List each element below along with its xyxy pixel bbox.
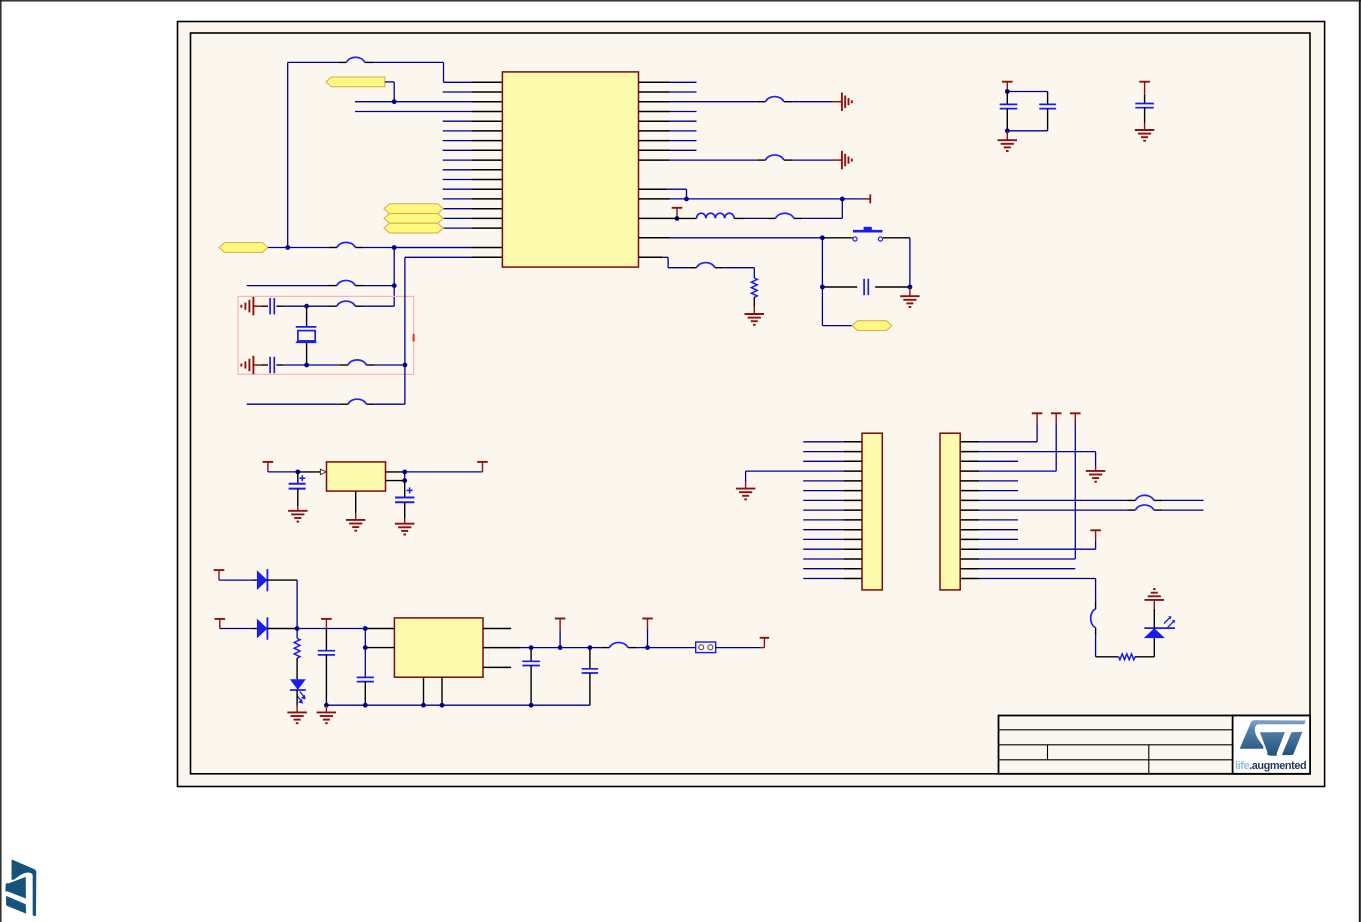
wire to switch	[822, 237, 852, 239]
wire to ground	[745, 471, 747, 482]
ferrite bead FB9	[767, 213, 802, 218]
wire top to pin1	[288, 62, 444, 82]
junction	[908, 285, 913, 290]
ferrite bead FB4	[329, 301, 364, 306]
ground G9	[395, 518, 415, 535]
junction	[295, 626, 300, 631]
ground G2	[832, 151, 851, 170]
junction	[403, 363, 408, 368]
J2 pin 1	[803, 441, 862, 443]
J2 pin 8	[803, 509, 862, 511]
ground G7	[288, 506, 308, 522]
diode D1	[257, 569, 268, 591]
wire output	[405, 471, 483, 473]
net flag F1	[326, 77, 385, 87]
wire	[268, 471, 298, 473]
wire	[220, 628, 257, 630]
junction	[820, 235, 825, 240]
junction	[392, 283, 397, 288]
wire to led	[1095, 579, 1097, 602]
connector J2	[862, 433, 882, 590]
wire from switch	[883, 238, 910, 287]
ground G5	[998, 131, 1018, 151]
ferrite bead FB8	[757, 155, 792, 160]
ferrite bead FB7	[757, 97, 792, 102]
ferrite bead FB5	[340, 360, 375, 365]
reg left pin2	[365, 647, 394, 649]
J2 pin 3	[803, 460, 862, 462]
pin right gnd1	[639, 101, 670, 103]
wire rail in	[297, 628, 394, 630]
J3 pin 8	[960, 509, 1203, 511]
junction	[285, 245, 290, 250]
J2 pin 15	[803, 578, 862, 580]
bottom rail	[326, 704, 590, 706]
pin left 14	[443, 208, 502, 210]
wire out	[531, 647, 560, 649]
J3 pin 15	[960, 578, 1095, 580]
wire cap bridge top	[1007, 92, 1047, 105]
microcontroller U1	[502, 72, 638, 267]
capacitor C14	[582, 648, 599, 706]
junction	[392, 245, 397, 250]
capacitor C13	[522, 648, 540, 706]
junction	[840, 197, 845, 202]
J2 pin 12	[803, 548, 862, 550]
reg bottom pins	[424, 677, 443, 705]
led D4	[1144, 616, 1176, 638]
junction	[1005, 128, 1010, 133]
resistor R1	[751, 278, 757, 297]
reg right stub3	[483, 666, 511, 668]
pin right k12	[639, 198, 863, 200]
ground G14 inverted	[1145, 589, 1165, 628]
wire to ground	[670, 159, 833, 161]
junction	[363, 626, 368, 631]
J3 pin 7	[960, 499, 1203, 501]
J3 pin 6	[960, 490, 1018, 492]
wire to ground	[670, 101, 833, 103]
pin left 18	[394, 247, 502, 249]
capacitor C6	[1000, 92, 1018, 109]
junction	[304, 363, 309, 368]
capacitor C11	[318, 629, 335, 706]
ground G1	[832, 93, 851, 112]
junction	[440, 703, 445, 708]
capacitor C10 polarized	[395, 481, 414, 518]
net flag F5	[384, 214, 443, 224]
power tap T7	[215, 619, 226, 629]
pin right 1	[639, 91, 697, 93]
junction	[675, 216, 680, 221]
wire VDD vertical left	[287, 62, 289, 247]
ground G10	[287, 690, 307, 723]
wire	[1055, 423, 1057, 472]
J3 pin 2	[960, 451, 1095, 453]
inner frame	[191, 33, 1311, 774]
J3 pin 14	[960, 568, 1075, 570]
ground G13	[1086, 467, 1106, 482]
pin left 12	[443, 188, 503, 190]
ground G12	[736, 482, 756, 499]
power tap T	[672, 208, 683, 219]
power tap T6	[214, 570, 225, 580]
pin left 7	[443, 140, 503, 142]
wire flag F1 to pin3	[385, 82, 394, 102]
wire row B	[247, 285, 394, 287]
reg ground pin	[355, 491, 357, 513]
power tap T10	[642, 619, 653, 648]
power tap T8	[321, 619, 332, 629]
junction	[645, 645, 650, 650]
diode D2	[257, 617, 268, 639]
junction	[363, 703, 368, 708]
pin left 4	[355, 111, 502, 113]
junction	[324, 703, 329, 708]
ferrite bead FB1	[338, 57, 373, 62]
J2 pin 14	[803, 568, 862, 570]
J3 pin 13	[960, 558, 1075, 560]
net flag F4	[384, 204, 443, 214]
pin left 10	[443, 169, 503, 171]
pin right k14	[639, 217, 678, 219]
J2 pin 7	[803, 499, 862, 501]
sheet background	[178, 22, 1325, 787]
J3 pin 9	[960, 519, 1018, 521]
wire	[1135, 638, 1154, 657]
J3 pin 5	[960, 480, 1018, 482]
pin left 15	[443, 217, 502, 219]
wire	[590, 647, 648, 649]
regulator U3	[394, 618, 483, 677]
J3 pin 4	[960, 470, 1056, 472]
ground G8	[346, 513, 366, 531]
capacitor C4	[262, 357, 284, 373]
capacitor C7	[1039, 104, 1056, 108]
wire row C	[283, 305, 394, 307]
power tap T13	[1051, 413, 1062, 422]
power tap T3	[1139, 82, 1150, 95]
terminator T11	[760, 638, 769, 648]
power tap T2	[1002, 82, 1013, 92]
J2 pin 5	[803, 480, 862, 482]
junction	[529, 645, 534, 650]
power tap T12	[1032, 413, 1043, 422]
ground crystal bottom	[241, 356, 261, 374]
wire	[668, 268, 754, 278]
ferrite bead FB11	[601, 642, 636, 647]
J2 pin 11	[803, 538, 862, 540]
pin left 11	[443, 179, 503, 181]
pushbutton SW1	[853, 227, 883, 241]
pin left 8	[443, 149, 503, 151]
J2 pin 9	[803, 519, 862, 521]
junction	[402, 470, 407, 475]
pin right k11	[639, 189, 687, 199]
wire	[1074, 423, 1076, 560]
ferrite bead FB13	[1127, 505, 1162, 510]
junction	[392, 99, 397, 104]
crystal Y1	[296, 306, 317, 365]
wire cap bridge bottom	[1007, 109, 1047, 131]
pin right 3	[639, 111, 697, 113]
ground G6	[1135, 123, 1155, 141]
J2 pin 4	[746, 470, 862, 472]
pin left 9	[443, 159, 503, 161]
wire	[267, 628, 297, 630]
logo ST corner	[6, 859, 37, 916]
connector J3	[940, 433, 960, 590]
J3 pin 11	[960, 538, 1018, 540]
wire	[1095, 541, 1097, 549]
J3 pin 1	[960, 441, 1037, 443]
resistor R3	[1119, 654, 1135, 660]
resistor R2	[294, 629, 300, 680]
junction	[558, 645, 563, 650]
pin left 19	[405, 256, 502, 258]
wire	[744, 199, 842, 219]
junction	[529, 703, 534, 708]
pin left 3	[355, 101, 502, 103]
ground G3	[900, 287, 920, 307]
wire	[1096, 635, 1119, 657]
junction	[421, 703, 426, 708]
ground G4	[745, 297, 765, 325]
logo text life.augmented	[1235, 760, 1306, 772]
J2 pin 6	[803, 490, 862, 492]
regulator U2	[327, 462, 386, 491]
junction	[684, 197, 689, 202]
highlight box crystal	[238, 296, 415, 374]
terminator red	[863, 194, 871, 203]
wire row D	[283, 364, 405, 366]
net flag F3 RESET	[852, 321, 892, 331]
ferrite bead FB2	[329, 242, 364, 247]
junction	[363, 645, 368, 650]
pin left 2	[443, 91, 503, 93]
wire osc vertical V1	[393, 248, 395, 307]
J2 pin 13	[803, 558, 862, 560]
pin left 16	[443, 227, 502, 229]
junction	[304, 304, 309, 309]
J2 pin 2	[803, 451, 862, 453]
capacitor C12	[357, 629, 374, 706]
junction	[402, 478, 407, 483]
power tap T15	[1090, 530, 1101, 541]
ferrite bead FB12	[1127, 495, 1162, 500]
reg output pins	[386, 472, 405, 481]
wire	[267, 580, 297, 628]
pin left 5	[443, 120, 503, 122]
net flag F6	[384, 223, 443, 233]
pin right k16	[639, 237, 823, 239]
title block	[999, 716, 1311, 774]
wire	[219, 579, 257, 581]
pin right 4	[639, 120, 697, 122]
pin right k18	[639, 257, 669, 267]
wire	[560, 647, 590, 649]
junction	[588, 645, 593, 650]
led D3	[290, 679, 306, 703]
pin right 7	[639, 149, 697, 151]
wire to reg input	[298, 469, 327, 474]
inductor L1	[677, 213, 744, 218]
pin right 6	[639, 140, 697, 142]
wire	[1095, 452, 1097, 467]
pin left 6	[443, 130, 503, 132]
wire osc vertical V2	[404, 257, 406, 404]
capacitor C9 polarized	[289, 472, 306, 506]
net flag F2 VDD	[219, 243, 268, 253]
wire to jumper	[648, 647, 696, 649]
power tap T14	[1070, 413, 1081, 422]
pin left 1	[444, 81, 503, 83]
capacitor C8	[1135, 95, 1154, 123]
wire from jumper	[716, 647, 760, 649]
ferrite bead FB3	[329, 280, 364, 285]
J3 pin 12	[960, 548, 1095, 550]
hop arc	[1091, 601, 1096, 635]
ferrite bead FB6	[340, 399, 375, 404]
wire	[1036, 423, 1038, 442]
wire row E	[247, 403, 405, 405]
reg out pin2	[483, 647, 531, 649]
power tap T4	[263, 462, 274, 472]
pin right gnd2	[639, 159, 670, 161]
power tap T5	[477, 462, 488, 472]
reg right stub1	[483, 628, 511, 630]
capacitor C5	[864, 279, 868, 295]
J3 pin 3	[960, 460, 1018, 462]
jumper J1	[696, 642, 716, 653]
ground G11	[317, 705, 337, 723]
ground crystal top	[241, 297, 261, 316]
junction	[1005, 89, 1010, 94]
logo ST	[1240, 720, 1306, 756]
wire flag F2 to IC	[268, 247, 472, 249]
pin left 13	[443, 198, 503, 200]
svg-text:life.augmented: life.augmented	[1235, 760, 1306, 772]
pin right 5	[639, 130, 697, 132]
wire to flag	[822, 287, 852, 326]
J3 pin 10	[960, 529, 1018, 531]
capacitor C3	[262, 298, 284, 314]
junction	[295, 470, 300, 475]
wire cap row	[822, 238, 910, 287]
ferrite bead FB10	[688, 263, 723, 268]
pin right 0	[639, 81, 697, 83]
power tap T9	[555, 619, 566, 648]
J2 pin 10	[803, 529, 862, 531]
junction	[820, 285, 825, 290]
